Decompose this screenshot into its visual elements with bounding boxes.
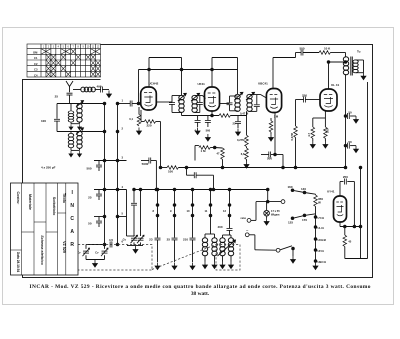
svg-text:38 watt.: 38 watt. <box>191 291 210 297</box>
svg-text:0,1: 0,1 <box>129 117 133 121</box>
svg-text:500: 500 <box>299 47 304 51</box>
svg-text:25: 25 <box>233 122 236 126</box>
svg-text:490: 490 <box>96 85 101 89</box>
svg-text:UF41: UF41 <box>318 249 325 253</box>
svg-text:C2: C2 <box>34 62 38 66</box>
svg-text:170: 170 <box>302 218 307 222</box>
svg-text:Sottotitolo: Sottotitolo <box>52 197 56 216</box>
svg-text:INCAR - Mod. VZ 529 - Ricevito: INCAR - Mod. VZ 529 - Ricevitore a onde … <box>30 284 371 290</box>
svg-text:100: 100 <box>168 170 173 174</box>
svg-text:50: 50 <box>348 140 352 144</box>
svg-text:OM: OM <box>33 50 38 54</box>
svg-text:Cv: Cv <box>123 238 127 242</box>
svg-text:UBC41: UBC41 <box>258 82 268 86</box>
svg-text:10: 10 <box>187 209 190 213</box>
svg-text:47: 47 <box>217 152 220 156</box>
svg-text:0,1: 0,1 <box>195 129 199 133</box>
svg-text:UF41: UF41 <box>198 82 206 86</box>
svg-text:Tu: Tu <box>357 50 361 54</box>
svg-text:rete: rete <box>240 216 246 220</box>
svg-text:UCH42: UCH42 <box>149 82 159 86</box>
svg-text:210: 210 <box>183 238 188 242</box>
svg-text:Data 28.10.54: Data 28.10.54 <box>16 252 20 272</box>
svg-text:400: 400 <box>217 225 222 229</box>
svg-text:VZ 529: VZ 529 <box>62 241 66 253</box>
svg-text:4 x 250 pF: 4 x 250 pF <box>41 166 56 170</box>
svg-text:N: N <box>70 203 74 209</box>
svg-text:Schema elettrico: Schema elettrico <box>40 235 44 265</box>
svg-text:4,7: 4,7 <box>307 133 311 137</box>
svg-text:4,5: 4,5 <box>109 238 114 242</box>
svg-text:250: 250 <box>302 94 307 98</box>
svg-text:160: 160 <box>287 185 292 189</box>
svg-text:UBC41: UBC41 <box>318 260 327 264</box>
svg-text:45: 45 <box>348 240 351 244</box>
svg-text:UL41: UL41 <box>318 226 325 230</box>
svg-text:Cv: Cv <box>134 235 138 239</box>
svg-text:50: 50 <box>348 111 352 115</box>
svg-text:140: 140 <box>301 187 306 191</box>
svg-text:1 M: 1 M <box>200 149 206 153</box>
svg-text:150: 150 <box>325 128 329 133</box>
svg-text:220: 220 <box>146 124 151 128</box>
svg-text:500: 500 <box>86 167 91 171</box>
svg-text:125: 125 <box>288 221 293 225</box>
svg-text:25: 25 <box>167 238 171 242</box>
svg-text:50: 50 <box>88 222 92 226</box>
svg-text:17 x 55: 17 x 55 <box>271 209 280 213</box>
svg-text:25: 25 <box>55 95 59 99</box>
svg-text:560: 560 <box>206 129 211 133</box>
svg-text:100: 100 <box>41 119 46 123</box>
svg-text:W: W <box>318 201 321 205</box>
svg-text:12: 12 <box>223 209 226 213</box>
svg-text:0,47 M: 0,47 M <box>240 112 249 116</box>
svg-text:UCH42: UCH42 <box>318 238 327 242</box>
svg-text:Wigam: Wigam <box>271 213 280 217</box>
svg-text:R: R <box>70 242 74 248</box>
svg-text:Costru·: Costru· <box>16 191 20 204</box>
svg-text:UL 41: UL 41 <box>331 83 339 87</box>
svg-text:5000: 5000 <box>142 162 149 166</box>
svg-text:6,8: 6,8 <box>241 152 245 156</box>
svg-text:25: 25 <box>88 196 92 200</box>
svg-text:500: 500 <box>267 157 272 161</box>
svg-text:UY41: UY41 <box>327 190 335 194</box>
svg-text:1 M: 1 M <box>274 115 279 119</box>
svg-text:C1: C1 <box>34 56 38 60</box>
svg-text:C4: C4 <box>34 73 38 77</box>
svg-text:0,27M: 0,27M <box>237 138 245 142</box>
svg-text:250: 250 <box>343 175 348 179</box>
svg-text:23: 23 <box>149 238 153 242</box>
svg-text:C3: C3 <box>34 68 38 72</box>
svg-text:Materiale: Materiale <box>28 194 32 210</box>
svg-text:0,27M: 0,27M <box>290 132 294 140</box>
svg-text:A: A <box>70 229 74 235</box>
svg-text:Cv: Cv <box>95 251 99 255</box>
svg-text:Titolo: Titolo <box>62 193 66 204</box>
svg-text:UY41: UY41 <box>318 216 325 220</box>
svg-text:10 K: 10 K <box>324 47 331 51</box>
svg-text:C: C <box>70 216 74 222</box>
